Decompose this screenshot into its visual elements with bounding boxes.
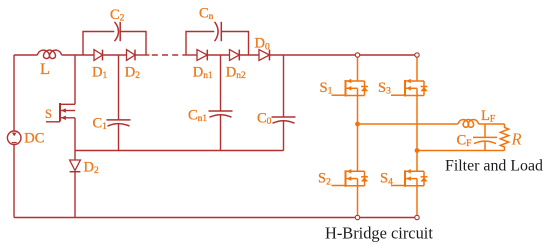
diode D2 (freewheel, vertical) xyxy=(70,160,81,171)
svg-text:Cn: Cn xyxy=(199,5,214,22)
resistor R xyxy=(500,124,508,151)
svg-text:S4: S4 xyxy=(380,171,393,188)
svg-text:Dn2: Dn2 xyxy=(226,64,246,81)
capacitor Cn1 xyxy=(220,55,222,111)
wire: left rail xyxy=(13,55,15,131)
diode D1 xyxy=(94,50,103,61)
svg-text:Dn1: Dn1 xyxy=(193,64,213,81)
node circle top right xyxy=(415,53,419,57)
node dot right leg output xyxy=(415,148,420,153)
svg-text:Cn1: Cn1 xyxy=(188,107,207,124)
transistor S1 xyxy=(332,80,368,97)
svg-text:R: R xyxy=(511,129,522,148)
inductor L xyxy=(38,50,62,58)
svg-text:Filter and Load: Filter and Load xyxy=(445,158,543,175)
H-bridge legs and output wires xyxy=(358,57,505,215)
capacitor C0 xyxy=(283,55,285,117)
source DC xyxy=(7,131,21,145)
svg-text:D2: D2 xyxy=(84,159,99,176)
diode Dn2 xyxy=(230,50,240,61)
svg-text:C0: C0 xyxy=(257,110,272,127)
transistor S4 xyxy=(391,170,427,187)
svg-text:D2: D2 xyxy=(125,64,140,81)
wire: dashed section on main rail xyxy=(152,54,184,56)
wire: bottom rail xyxy=(14,217,417,219)
node circle bottom right xyxy=(415,215,419,219)
svg-text:S2: S2 xyxy=(318,171,331,188)
transistor S3 xyxy=(391,80,427,97)
transistor S (main switch) xyxy=(46,55,75,151)
diode D2 xyxy=(127,50,136,61)
capacitor CF xyxy=(484,124,486,137)
svg-text:C2: C2 xyxy=(110,7,125,24)
svg-text:S1: S1 xyxy=(320,80,333,97)
transistor S2 xyxy=(332,170,368,187)
svg-text:D1: D1 xyxy=(92,64,107,81)
svg-text:D0: D0 xyxy=(255,36,270,53)
svg-text:DC: DC xyxy=(24,130,44,146)
svg-text:C1: C1 xyxy=(93,115,108,132)
svg-text:S3: S3 xyxy=(378,80,391,97)
wire: capacitor bus xyxy=(75,150,284,152)
svg-text:L: L xyxy=(40,59,50,78)
svg-text:CF: CF xyxy=(457,132,472,149)
svg-text:H-Bridge circuit: H-Bridge circuit xyxy=(325,223,433,242)
node circle top left xyxy=(355,53,359,57)
svg-text:LF: LF xyxy=(481,108,495,125)
capacitor C2 bridge xyxy=(83,32,114,56)
capacitor C1 xyxy=(118,55,120,120)
svg-text:S: S xyxy=(45,107,52,121)
wire: main top rail segments y=55 xyxy=(14,54,417,56)
diode D0 xyxy=(259,50,270,61)
capacitor Cn bridge xyxy=(186,32,214,56)
node dot left leg output xyxy=(355,122,360,127)
inductor LF xyxy=(458,120,478,128)
diode Dn1 xyxy=(197,50,207,61)
node circle bottom left xyxy=(355,215,359,219)
